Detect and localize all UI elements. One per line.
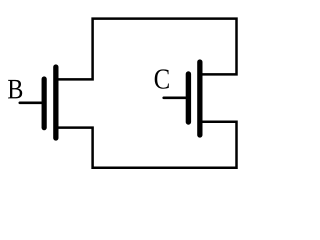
label C (gate of Q2) bbox=[155, 69, 169, 88]
transistor Q1 channel bar bbox=[53, 67, 58, 138]
wire: top loop from Q1 drain up across top edge down to Q2 drain bbox=[56, 19, 237, 80]
transistor Q1 gate plate bbox=[42, 79, 47, 128]
label B (gate of Q1) bbox=[8, 80, 22, 98]
transistor Q2 (right, gate C): gate lead wire bbox=[164, 97, 189, 100]
wire: bottom loop from Q1 source down across bottom edge up to Q2 source bbox=[56, 122, 237, 168]
transistor Q1 (left, gate B): gate lead wire bbox=[20, 102, 44, 105]
transistor Q2 channel bar bbox=[197, 62, 202, 135]
transistor Q2 gate plate bbox=[186, 74, 191, 122]
